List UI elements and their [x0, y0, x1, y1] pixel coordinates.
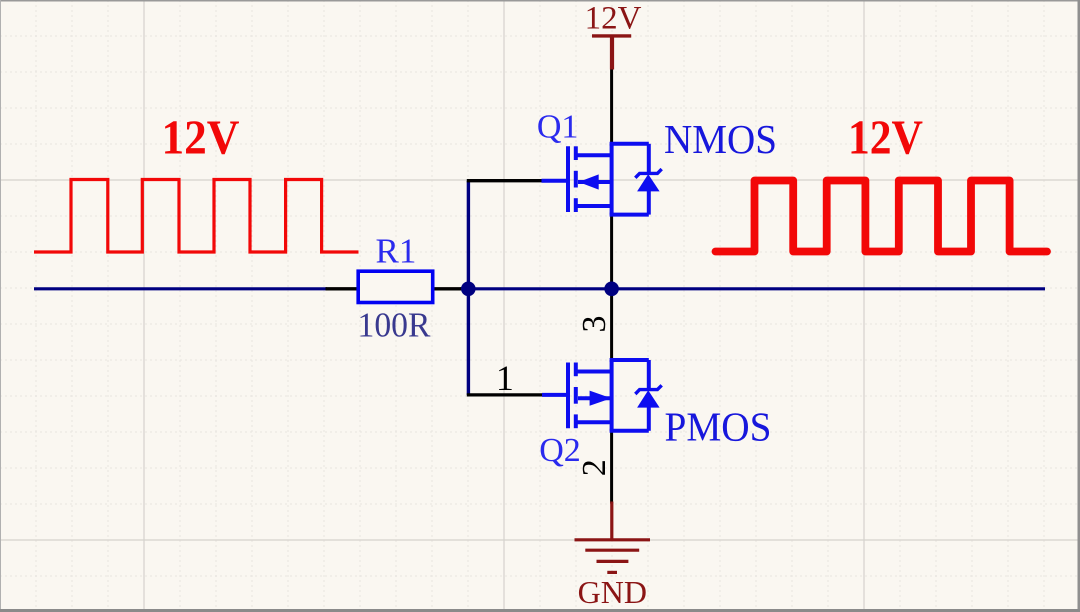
svg-text:3: 3 — [576, 316, 613, 333]
wire: Q1 source to output node pin 3 — [610, 215, 613, 359]
svg-text:NMOS: NMOS — [664, 116, 777, 162]
svg-text:1: 1 — [496, 358, 514, 398]
svg-text:GND: GND — [578, 574, 647, 610]
power port 12V symbol — [592, 36, 631, 70]
ground symbol — [575, 502, 651, 573]
waveform output square wave — [716, 181, 1048, 252]
wire: 12V supply to Q1 drain — [610, 69, 613, 145]
svg-text:12V: 12V — [585, 0, 642, 36]
wire: Q1 gate stub (black) — [467, 179, 542, 182]
waveform input square wave — [34, 180, 359, 253]
resistor R1 pins (black) — [326, 287, 359, 290]
wire: main horizontal net left of R1 — [34, 287, 327, 290]
wire: Q2 source to ground — [610, 431, 613, 504]
wire: vertical gate bus — [467, 181, 470, 395]
svg-text:12V: 12V — [162, 110, 240, 165]
resistor R1 body — [358, 271, 433, 302]
svg-text:R1: R1 — [375, 231, 416, 270]
svg-text:100R: 100R — [358, 306, 432, 345]
wire: main horizontal net right of R1 to output — [460, 287, 1045, 290]
svg-text:Q1: Q1 — [537, 109, 579, 146]
wire: Q2 gate stub (black) — [467, 393, 542, 396]
junction node A (left) — [461, 282, 476, 297]
svg-text:2: 2 — [576, 459, 613, 476]
svg-text:PMOS: PMOS — [665, 404, 772, 450]
transistor Q1 (NMOS with body diode) — [542, 144, 662, 215]
transistor Q2 (PMOS with body diode) — [542, 360, 662, 431]
junction node B (right) — [604, 282, 619, 297]
svg-text:12V: 12V — [848, 109, 923, 164]
svg-text:Q2: Q2 — [539, 432, 581, 469]
